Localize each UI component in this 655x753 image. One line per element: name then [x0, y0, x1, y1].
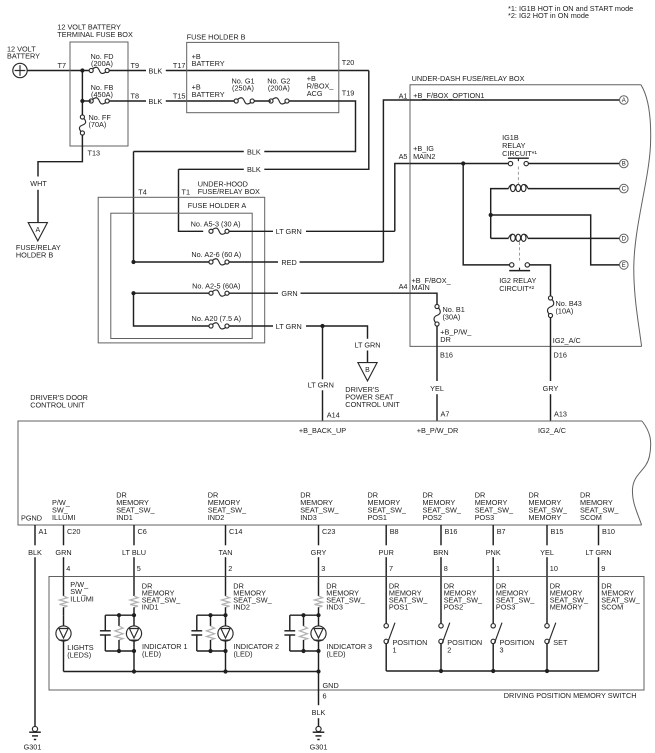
IG2 relay coil	[511, 234, 516, 241]
wire indicator 3 to ground bus	[318, 651, 320, 672]
wire coil2 right to circled D	[528, 237, 620, 239]
IG1B relay coil	[511, 184, 516, 191]
svg-text:RED: RED	[281, 258, 296, 267]
svg-text:BLK: BLK	[247, 165, 261, 174]
ground G301 (right)	[316, 726, 321, 731]
ground G301 (left)	[32, 726, 37, 731]
wire YEL from B15	[546, 525, 548, 545]
svg-text:8: 8	[444, 564, 448, 573]
wire PNK from B7	[492, 525, 494, 545]
svg-text:BLK: BLK	[247, 147, 261, 156]
svg-text:+B_P/W_DR: +B_P/W_DR	[417, 426, 459, 435]
wire bus to A2-6	[134, 261, 210, 263]
LED lamp LIGHTS (LEDS)	[63, 615, 65, 626]
wire contact to circled B	[528, 163, 619, 165]
wire LT GRN from B10	[598, 525, 600, 545]
svg-text:ACG: ACG	[307, 89, 323, 98]
capacitor (indicator 3)	[289, 615, 291, 631]
node D	[620, 234, 629, 243]
wire T20 down to BLK row2	[264, 71, 369, 170]
svg-text:B16: B16	[440, 351, 453, 360]
svg-text:PGND: PGND	[21, 514, 42, 523]
svg-text:5: 5	[137, 564, 141, 573]
svg-text:IND3: IND3	[326, 603, 343, 612]
svg-text:POSITION: POSITION	[393, 638, 428, 647]
svg-text:T8: T8	[131, 91, 140, 100]
svg-text:PUR: PUR	[378, 548, 393, 557]
svg-text:UNDER-DASH FUSE/RELAY BOX: UNDER-DASH FUSE/RELAY BOX	[412, 74, 525, 83]
wire LT GRN to seat control unit branch	[323, 326, 368, 339]
svg-text:T4: T4	[138, 187, 147, 196]
IG2 relay contact	[509, 263, 530, 271]
svg-text:10: 10	[550, 564, 558, 573]
wire T1 vertical to fuse A5-3	[179, 169, 204, 231]
svg-text:7: 7	[389, 564, 393, 573]
svg-text:(200A): (200A)	[268, 84, 290, 93]
svg-text:T15: T15	[173, 91, 186, 100]
wire B43 to D16	[550, 317, 552, 346]
fuse No.A2-6 (60 A)	[191, 250, 241, 265]
wire coil left branch	[491, 189, 509, 239]
svg-text:A14: A14	[327, 410, 340, 419]
svg-text:POSITION: POSITION	[500, 638, 535, 647]
wire YEL B16 to A7	[436, 346, 438, 381]
12 volt battery terminal fuse box	[70, 42, 128, 146]
driving position memory switch box	[49, 577, 644, 691]
wire battery to T7	[27, 70, 89, 72]
wire bus corner to A20	[134, 293, 210, 326]
fuse No.FD (200A)	[89, 52, 113, 73]
wire BRN from B16	[440, 525, 442, 545]
svg-text:BRN: BRN	[433, 548, 448, 557]
svg-text:BLK: BLK	[149, 66, 163, 75]
svg-text:T9: T9	[131, 61, 140, 70]
wire GRY D16 to A13	[550, 346, 552, 381]
node A	[620, 96, 629, 105]
svg-text:3: 3	[500, 646, 504, 655]
svg-text:POS1: POS1	[389, 603, 408, 612]
svg-text:(LED): (LED)	[234, 650, 253, 659]
svg-text:A5: A5	[399, 152, 408, 161]
svg-text:YEL: YEL	[540, 548, 554, 557]
svg-text:(30A): (30A)	[443, 313, 461, 322]
node indicator 2 top rail	[197, 614, 226, 616]
torn right edge control unit	[632, 421, 650, 525]
wire G2 to T19	[289, 100, 339, 102]
svg-text:9: 9	[601, 564, 605, 573]
svg-text:IND3: IND3	[300, 513, 317, 522]
wire A2-6 out (RED)	[229, 261, 278, 263]
svg-text:T1: T1	[182, 187, 191, 196]
svg-text:SET: SET	[553, 638, 568, 647]
svg-text:POS3: POS3	[496, 603, 515, 612]
svg-text:(200A): (200A)	[91, 59, 113, 68]
resistor (indicator 3)	[303, 615, 305, 626]
svg-text:B7: B7	[497, 527, 506, 536]
fuse No.G2 (200A)	[267, 77, 290, 104]
wire A4 row to fuse B1	[410, 293, 437, 304]
node C	[620, 184, 629, 193]
wire A2-5 out (GRN)	[229, 292, 278, 294]
illumination resistor symbol on pin wire (INDICATOR 2)	[225, 577, 227, 597]
wire SCOM pin 9	[598, 577, 600, 672]
wire TAN from C14	[225, 525, 227, 545]
svg-text:(LEDS): (LEDS)	[67, 651, 91, 660]
dashed relay link IG1B	[517, 167, 519, 185]
svg-text:IND2: IND2	[208, 513, 225, 522]
svg-text:POS2: POS2	[444, 603, 463, 612]
svg-text:B10: B10	[602, 527, 615, 536]
svg-text:1: 1	[393, 646, 397, 655]
svg-text:2: 2	[447, 646, 451, 655]
switch common bus	[386, 670, 598, 672]
wire LT BLU from C6	[133, 525, 135, 545]
svg-text:A7: A7	[441, 410, 450, 419]
svg-text:B: B	[365, 367, 370, 374]
svg-text:POSITION: POSITION	[447, 638, 482, 647]
svg-text:CONTROL UNIT: CONTROL UNIT	[30, 400, 85, 409]
svg-text:IND1: IND1	[116, 513, 133, 522]
switch POSITION 2	[440, 577, 442, 624]
wire G1 to G2	[254, 100, 271, 102]
wire A20 out (LT GRN)	[229, 325, 273, 327]
svg-text:MAIN2: MAIN2	[413, 152, 435, 161]
svg-text:GRN: GRN	[281, 289, 297, 298]
svg-text:A1: A1	[399, 92, 408, 101]
svg-text:No. A2-5 (60A): No. A2-5 (60A)	[192, 281, 240, 290]
capacitor (indicator 1)	[104, 615, 106, 631]
svg-text:LT GRN: LT GRN	[276, 322, 302, 331]
svg-text:GRN: GRN	[55, 548, 71, 557]
svg-text:T20: T20	[342, 58, 355, 67]
wire FF to T13 corner	[38, 135, 82, 177]
resistor (indicator 1)	[118, 615, 120, 626]
node indicator 1 top rail	[105, 614, 134, 616]
svg-text:BLK: BLK	[149, 97, 163, 106]
svg-text:A: A	[35, 227, 40, 234]
IG1B relay contact	[508, 158, 529, 166]
capacitor (indicator 2)	[196, 615, 198, 631]
fuse No.FF (70A)	[79, 113, 111, 135]
wire contact2 to fuse B43	[530, 265, 551, 296]
torn right edge	[634, 85, 651, 347]
svg-text:C: C	[622, 187, 627, 193]
switch POSITION 3	[492, 577, 494, 624]
svg-text:6: 6	[323, 692, 327, 701]
svg-text:C6: C6	[138, 527, 147, 536]
node B	[620, 159, 629, 168]
svg-text:YEL: YEL	[430, 384, 444, 393]
fuse holder A box	[111, 213, 252, 338]
connector A (fuse/relay holder B)	[28, 223, 47, 241]
svg-text:A: A	[622, 98, 626, 104]
svg-text:CIRCUIT*¹: CIRCUIT*¹	[502, 149, 537, 158]
svg-text:LT GRN: LT GRN	[354, 341, 380, 350]
svg-text:LT GRN: LT GRN	[585, 548, 611, 557]
wire indicator 2 to ground bus	[225, 651, 227, 672]
svg-text:WHT: WHT	[30, 179, 47, 188]
svg-text:T17: T17	[173, 61, 186, 70]
svg-text:3: 3	[321, 564, 325, 573]
svg-text:CIRCUIT*²: CIRCUIT*²	[499, 284, 534, 293]
fuse holder B box	[187, 42, 339, 112]
svg-text:BATTERY: BATTERY	[192, 59, 225, 68]
svg-text:(LED): (LED)	[142, 650, 161, 659]
illumination resistor symbol on pin wire (INDICATOR 3)	[318, 577, 320, 597]
connector B (driver power seat control unit)	[358, 363, 377, 381]
node IG2 feed junction	[461, 161, 465, 165]
node indicator 2 bottom rail	[197, 650, 226, 652]
svg-text:No. A2-6 (60 A): No. A2-6 (60 A)	[191, 250, 241, 259]
wire GRY from C23	[318, 525, 320, 545]
svg-text:(10A): (10A)	[556, 307, 574, 316]
svg-text:MAIN: MAIN	[412, 283, 430, 292]
node indicator 3 bottom rail	[290, 650, 319, 652]
svg-text:BATTERY: BATTERY	[192, 90, 225, 99]
wire junction to IG2 coil	[491, 237, 509, 239]
wire A1 row to circled A	[410, 99, 620, 101]
svg-text:MEMORY: MEMORY	[529, 513, 562, 522]
fuse No.B1 (30A)	[434, 304, 465, 326]
svg-text:IG2_A/C: IG2_A/C	[538, 426, 566, 435]
svg-text:D: D	[622, 237, 627, 243]
wire indicator 1 to ground bus	[133, 651, 135, 672]
illumination resistor symbol on pin wire (INDICATOR 1)	[133, 577, 135, 597]
svg-text:TAN: TAN	[218, 548, 232, 557]
wire FB to T8	[109, 100, 146, 102]
svg-text:ILLUMI: ILLUMI	[70, 595, 94, 604]
wire RED up to A1 row	[383, 100, 410, 262]
node bus-A2-6	[131, 260, 135, 264]
under-dash fuse/relay box	[410, 85, 642, 347]
wire B1 to B16	[436, 326, 438, 347]
svg-text:*2: IG2 HOT in ON mode: *2: IG2 HOT in ON mode	[508, 11, 589, 20]
svg-text:SCOM: SCOM	[601, 603, 623, 612]
wire FD to T9	[109, 70, 146, 72]
node indicator 1 bottom rail	[105, 650, 134, 652]
node E	[620, 261, 629, 270]
svg-text:C23: C23	[322, 527, 335, 536]
svg-text:+B_F/BOX_OPTION1: +B_F/BOX_OPTION1	[413, 91, 484, 100]
svg-text:T13: T13	[88, 148, 101, 157]
svg-text:POS1: POS1	[368, 513, 387, 522]
svg-text:D16: D16	[554, 351, 567, 360]
wire BLK row2 to T1	[179, 168, 244, 170]
dashed relay link IG2	[519, 242, 521, 261]
under-hood fuse/relay box	[98, 197, 265, 343]
svg-text:CONTROL UNIT: CONTROL UNIT	[345, 400, 400, 409]
svg-text:C14: C14	[229, 527, 242, 536]
wire GND pin 6	[318, 672, 320, 691]
wire bus to FB fuse	[82, 100, 91, 102]
illumination resistor symbol on pin wire (LIGHTS)	[63, 577, 65, 597]
fuse No.A20 (7.5 A)	[192, 314, 242, 329]
svg-text:1: 1	[496, 564, 500, 573]
svg-text:T19: T19	[342, 88, 355, 97]
svg-text:G301: G301	[24, 742, 42, 751]
svg-text:TERMINAL FUSE BOX: TERMINAL FUSE BOX	[57, 30, 133, 39]
battery symbol (circle with plus)	[13, 63, 27, 77]
LED indicator 1	[133, 615, 135, 626]
svg-text:No. A20 (7.5 A): No. A20 (7.5 A)	[192, 314, 242, 323]
node coil junction	[489, 213, 493, 217]
wire T4 vertical into under-hood box	[133, 152, 135, 263]
svg-text:FUSE HOLDER A: FUSE HOLDER A	[188, 201, 247, 210]
svg-text:B8: B8	[390, 527, 399, 536]
svg-text:BLK: BLK	[312, 708, 326, 717]
svg-text:(LED): (LED)	[327, 650, 346, 659]
wire BLK to G301	[318, 690, 320, 705]
svg-text:FUSE/RELAY BOX: FUSE/RELAY BOX	[198, 187, 260, 196]
LED indicator 3	[318, 615, 320, 626]
svg-text:GRY: GRY	[311, 548, 327, 557]
svg-text:BLK: BLK	[28, 548, 42, 557]
svg-text:G301: G301	[310, 742, 328, 751]
svg-text:FUSE HOLDER B: FUSE HOLDER B	[187, 33, 246, 42]
wire bus to A2-5	[134, 292, 210, 294]
wire BLK row1 to T4	[134, 151, 244, 153]
svg-text:POS2: POS2	[423, 513, 442, 522]
svg-text:IND2: IND2	[233, 603, 250, 612]
wire bus to FF	[81, 101, 83, 115]
wire BLK continues to ground	[34, 557, 36, 726]
svg-text:PNK: PNK	[486, 548, 501, 557]
svg-text:A4: A4	[399, 282, 408, 291]
node indicator 3 top rail	[290, 614, 319, 616]
LED indicator 2	[225, 615, 227, 626]
svg-text:+B_BACK_UP: +B_BACK_UP	[299, 426, 346, 435]
svg-text:B16: B16	[445, 527, 458, 536]
svg-text:A13: A13	[554, 410, 567, 419]
wire coil right to circled C	[528, 188, 620, 190]
svg-text:LT GRN: LT GRN	[276, 227, 302, 236]
svg-text:No. A5-3 (30 A): No. A5-3 (30 A)	[191, 219, 241, 228]
svg-text:T7: T7	[57, 61, 66, 70]
svg-text:BATTERY: BATTERY	[7, 52, 40, 61]
wire GRN from C20	[63, 525, 65, 545]
svg-text:DRIVING POSITION MEMORY SWITCH: DRIVING POSITION MEMORY SWITCH	[504, 691, 637, 700]
svg-text:(450A): (450A)	[91, 90, 113, 99]
wire junction to circled E	[491, 215, 620, 265]
svg-text:GND: GND	[323, 681, 339, 690]
svg-text:A1: A1	[39, 527, 48, 536]
svg-text:C20: C20	[67, 527, 80, 536]
svg-text:ILLUMI: ILLUMI	[52, 513, 76, 522]
wire IG2 feed from A5 junction	[463, 164, 509, 265]
svg-text:LT GRN: LT GRN	[308, 380, 334, 389]
svg-text:(250A): (250A)	[232, 84, 254, 93]
fuse No.G1 (250A)	[231, 77, 254, 104]
svg-text:IG2_A/C: IG2_A/C	[553, 336, 581, 345]
svg-text:SCOM: SCOM	[580, 513, 602, 522]
wire T19 down to BLK row1	[264, 101, 355, 152]
svg-text:B15: B15	[551, 527, 564, 536]
switch SET	[546, 577, 548, 624]
resistor (indicator 2)	[210, 615, 212, 626]
wire LT GRN up to A5	[395, 164, 410, 232]
driver's door control unit box	[18, 421, 642, 525]
node bus-A2-5	[131, 291, 135, 295]
ground bus (LED section)	[64, 671, 319, 673]
fuse No.FB (450A)	[89, 83, 113, 104]
node T7 junction / internal bus	[80, 68, 84, 72]
svg-text:HOLDER B: HOLDER B	[16, 251, 53, 260]
svg-text:LT BLU: LT BLU	[122, 548, 146, 557]
svg-text:IND1: IND1	[142, 603, 159, 612]
wire LT GRN down to A14	[322, 326, 324, 379]
svg-text:B: B	[622, 162, 626, 168]
wire PUR from B8	[385, 525, 387, 545]
fuse No.A5-3 (30 A)	[191, 219, 241, 234]
switch POSITION 1	[385, 577, 387, 624]
svg-text:2: 2	[228, 564, 232, 573]
svg-text:4: 4	[66, 564, 70, 573]
node LT GRN branch	[320, 324, 324, 328]
svg-text:DR: DR	[440, 335, 451, 344]
svg-text:MEMORY: MEMORY	[550, 603, 583, 612]
fuse No.A2-5 (60A)	[192, 281, 240, 296]
wire A5-3 out (LT GRN)	[229, 230, 273, 232]
fuse No.B43 (10A)	[548, 296, 582, 318]
svg-text:POS3: POS3	[475, 513, 494, 522]
wire A5 row to relay contact	[410, 163, 508, 165]
svg-text:GRY: GRY	[543, 384, 559, 393]
svg-text:(70A): (70A)	[89, 120, 107, 129]
wire BLK from A1	[34, 525, 36, 545]
svg-text:E: E	[622, 263, 626, 269]
